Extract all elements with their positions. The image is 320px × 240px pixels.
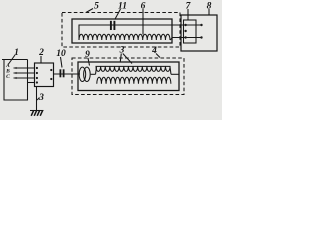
label 2 — [38, 48, 44, 58]
wire: top conductor from coil start up and to contact box — [79, 25, 202, 40]
coil 3 (main winding, serpentine: top line — [96, 65, 171, 67]
svg-text:1: 1 — [14, 48, 19, 58]
neutral loop wire — [4, 60, 28, 101]
terminal dots of box 2 — [36, 67, 53, 84]
coil 6 (top winding, scalloped) — [79, 34, 170, 40]
paper background — [0, 0, 222, 120]
dashed enclosure (lamp housing, bottom) — [72, 58, 184, 95]
connector 10 (two thick bars) — [59, 69, 61, 77]
winding lead-out — [170, 67, 171, 74]
label 3 (ground lead) — [38, 93, 44, 103]
label 9 — [85, 50, 90, 60]
coil 9 (first winding, 2 turns) — [79, 67, 86, 81]
connector 11 (two thick bars on top wire) — [110, 21, 112, 30]
coil 3 lower turn arcs — [97, 77, 171, 84]
wire: coil end to contact box — [170, 38, 201, 41]
svg-text:5: 5 — [94, 2, 99, 12]
label 1 — [14, 48, 19, 58]
label 3 (winding) — [119, 46, 125, 56]
supply line 1 — [2, 59, 28, 61]
svg-text:10: 10 — [56, 49, 66, 59]
label 8 — [207, 2, 212, 12]
contact block 7 (inner small rect) — [184, 20, 197, 43]
wire: winding end to body edge — [171, 73, 179, 75]
wire between windings — [91, 73, 96, 75]
label 6 — [141, 2, 146, 12]
svg-text:С: С — [6, 74, 10, 80]
slash mark on line 1 — [9, 55, 16, 64]
label 10 — [56, 49, 66, 59]
phase labels — [5, 63, 10, 80]
label 5 — [94, 2, 99, 12]
ground wire — [36, 87, 38, 111]
phase line B — [14, 72, 35, 74]
svg-text:4: 4 — [151, 46, 157, 56]
branch wire to terminal 4 of box 2 — [28, 82, 35, 84]
lamp body (bottom inner rect) — [78, 62, 179, 91]
dashed enclosure 5 (top unit) — [62, 13, 180, 48]
coil 3 upper turn arcs — [96, 66, 170, 71]
switch box 2 — [35, 63, 54, 87]
label 7 — [186, 2, 192, 12]
svg-text:11: 11 — [118, 2, 127, 12]
winding lead-in — [96, 67, 97, 74]
phase line A — [14, 67, 35, 69]
contact terminal dots — [184, 24, 202, 39]
phase line C — [14, 77, 35, 79]
wire: box 2 to lamp unit — [54, 73, 81, 75]
contactor box 8 (outer right rect) — [181, 15, 217, 51]
ground symbol — [30, 111, 44, 116]
label 11 — [118, 2, 127, 12]
igniter body (top inner rect) — [72, 19, 172, 43]
label 4 — [151, 46, 157, 56]
